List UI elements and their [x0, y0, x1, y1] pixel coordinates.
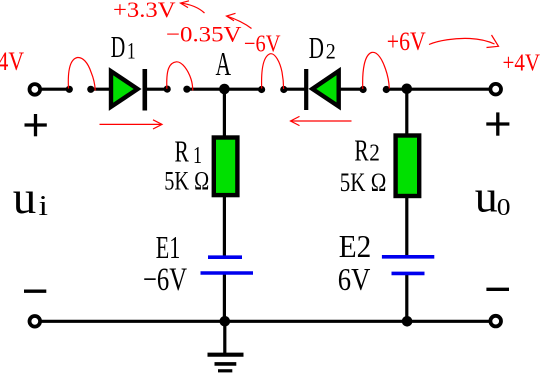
junction dot break2 left	[164, 86, 171, 93]
svg-text:R: R	[354, 132, 368, 167]
label D1	[111, 29, 136, 64]
svg-text:5K Ω: 5K Ω	[340, 168, 387, 197]
red arc break4	[363, 52, 390, 89]
label R1	[175, 134, 203, 170]
red current arrow left under D2	[291, 116, 352, 125]
diode D2	[306, 69, 339, 110]
svg-text:4V: 4V	[0, 47, 24, 76]
wire from D1 cathode to break 2	[147, 88, 168, 91]
red arc break1	[68, 57, 95, 90]
battery E2 short plate	[392, 272, 425, 276]
red arc break2	[167, 62, 193, 91]
red curved arrow after +6V	[429, 35, 499, 48]
terminal output +	[490, 84, 501, 95]
red curved arrow after +3.3V	[181, 1, 205, 13]
svg-text:E2: E2	[339, 228, 372, 264]
red current arrow right under D1	[100, 120, 163, 129]
node dot bottom left junction	[220, 316, 231, 327]
svg-text:E1: E1	[156, 229, 181, 265]
svg-text:i: i	[39, 190, 49, 222]
svg-text:D: D	[111, 29, 126, 64]
node dot bottom right junction	[402, 316, 413, 327]
battery E1 long plate	[201, 271, 254, 275]
svg-text:+6V: +6V	[387, 27, 426, 56]
label u0 output voltage	[475, 171, 511, 222]
plus sign input	[25, 114, 47, 136]
label R2	[354, 132, 380, 167]
resistor R2	[396, 136, 420, 197]
svg-text:−6V: −6V	[244, 30, 281, 57]
minus sign output	[486, 288, 509, 291]
wire E2 bottom to bottom rail	[405, 272, 408, 322]
junction dot break1 right	[87, 86, 94, 93]
wire from break 2 through node A	[186, 88, 262, 91]
terminal input -	[30, 316, 41, 327]
red arc break3	[262, 54, 284, 89]
svg-text:5K Ω: 5K Ω	[164, 167, 209, 196]
resistor R1	[214, 138, 238, 196]
junction dot break2 right	[183, 86, 190, 93]
junction dot break1 left	[66, 86, 73, 93]
svg-text:+3.3V: +3.3V	[113, 0, 176, 22]
terminal input +	[30, 84, 41, 95]
wire R2 bottom to battery E2	[405, 196, 408, 258]
wire bottom rail	[37, 320, 493, 323]
svg-text:+4V: +4V	[503, 51, 541, 77]
svg-text:A: A	[216, 46, 232, 83]
plus sign output	[486, 112, 509, 135]
battery E2 long plate	[382, 255, 434, 259]
terminal output -	[490, 316, 501, 327]
wire ground stub	[223, 321, 226, 355]
node dot top right junction	[402, 84, 413, 95]
svg-text:u: u	[13, 172, 37, 224]
label ui input voltage	[13, 172, 48, 224]
junction dot break4 right	[383, 86, 390, 93]
wire from break 1 to diode D1 anode	[90, 88, 112, 91]
node A dot	[219, 84, 230, 95]
svg-text:2: 2	[326, 38, 336, 63]
wire R1 bottom to battery E1	[223, 195, 226, 258]
svg-text:R: R	[175, 134, 190, 169]
junction dot break3 left	[258, 86, 265, 93]
svg-text:6V: 6V	[338, 261, 371, 297]
diode D1	[111, 69, 145, 111]
ground	[208, 355, 244, 371]
wire E1 bottom to bottom rail	[223, 272, 226, 323]
wire right junction down to R2	[405, 89, 408, 136]
wire from D2 anode to break 4	[339, 88, 364, 91]
junction dot break4 left	[360, 86, 367, 93]
svg-text:−6V: −6V	[143, 262, 187, 298]
svg-text:0: 0	[497, 195, 511, 221]
battery E1 short plate	[208, 255, 242, 259]
junction dot break3 right	[280, 86, 287, 93]
svg-text:1: 1	[127, 39, 136, 64]
minus sign input	[24, 290, 46, 293]
wire top from input terminal to break 1	[38, 88, 70, 91]
wire from break 4 to output terminal	[386, 88, 494, 91]
svg-text:u: u	[475, 171, 498, 222]
svg-text:1: 1	[193, 143, 202, 169]
wire from break 3 to diode D2 cathode	[284, 88, 307, 91]
svg-text:2: 2	[369, 140, 380, 166]
svg-text:D: D	[309, 30, 324, 65]
label D2	[309, 30, 336, 65]
wire node A down to R1	[223, 89, 226, 137]
red curved arrow above -0.35V	[227, 13, 252, 28]
svg-text:−0.35V: −0.35V	[166, 22, 242, 47]
